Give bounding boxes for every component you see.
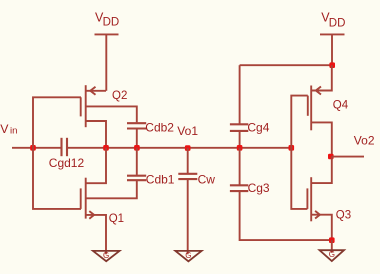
wire VDD1 to Q2 source [105, 34, 107, 90]
ground G3 [320, 250, 345, 261]
svg-text:Cdb2: Cdb2 [145, 121, 174, 135]
transistor Q4 (PMOS) [308, 65, 332, 156]
svg-text:Q1: Q1 [109, 213, 124, 225]
junction dot Vo2 [328, 154, 334, 160]
junction dot wire end gate of Q4/Q3 [289, 145, 295, 151]
wire VDD2 top horizontal [240, 64, 332, 66]
wire gate loop left [33, 97, 81, 209]
svg-text:G: G [329, 250, 335, 259]
svg-text:Q4: Q4 [333, 100, 349, 112]
node A junction dot Vin branch [30, 145, 36, 151]
svg-text:Cgd12: Cgd12 [49, 156, 85, 170]
wire gate vertical Q4/Q3 [291, 96, 308, 209]
node Vo2 label [354, 133, 375, 147]
label Cg4 [247, 120, 269, 134]
wire VDD2 to junction [331, 34, 333, 65]
label Cgd12 [49, 156, 85, 170]
svg-text:V: V [0, 122, 9, 136]
wire Vo2 stub [332, 156, 364, 158]
svg-text:DD: DD [329, 17, 346, 29]
junction dot Cg branch [237, 145, 243, 151]
svg-text:Cdb1: Cdb1 [146, 172, 175, 186]
capacitor Cg4 [230, 65, 248, 148]
capacitor Cw [178, 148, 197, 254]
power VDD1 label [95, 10, 119, 28]
power VDD2 bar [320, 33, 345, 35]
svg-text:G: G [103, 251, 109, 260]
label Q2 [112, 90, 127, 102]
label Q1 [109, 213, 124, 225]
capacitor Cdb1 [86, 148, 147, 199]
junction dot Vo1/Cw [185, 145, 191, 151]
svg-text:Cg3: Cg3 [248, 181, 270, 195]
label Q3 [336, 209, 351, 221]
svg-text:G: G [185, 251, 191, 260]
svg-text:in: in [10, 126, 17, 137]
label Cdb2 [145, 121, 174, 135]
node Vin label [0, 122, 17, 137]
capacitor Cdb2 [127, 123, 146, 148]
node Vo1 label [177, 124, 198, 138]
svg-text:Q3: Q3 [336, 209, 351, 221]
ground G2 [175, 251, 201, 262]
junction dot VDD2 branch [329, 62, 335, 68]
power VDD2 label [321, 11, 345, 30]
label Cw [198, 173, 216, 187]
ground G1 [93, 251, 120, 261]
power VDD1 bar [95, 33, 119, 35]
label Cdb1 [146, 172, 175, 186]
junction dot ground right [329, 237, 335, 243]
junction dot Cdb branch [134, 145, 140, 151]
wire Vin to Cgd12 [12, 147, 61, 149]
svg-text:DD: DD [103, 16, 120, 28]
label Cg3 [248, 181, 270, 195]
svg-text:Vo2: Vo2 [354, 133, 375, 147]
svg-text:Cw: Cw [198, 173, 216, 187]
capacitor Cgd12 [62, 138, 68, 156]
transistor Q1 (NMOS) [81, 148, 106, 254]
label Q4 [333, 100, 349, 112]
wire to ground G3 [331, 240, 333, 253]
transistor Q3 (NMOS) [307, 157, 331, 241]
svg-text:Cg4: Cg4 [247, 120, 269, 134]
wire Cgd12 to node Vo1 [68, 147, 291, 149]
transistor Q2 (PMOS) [81, 85, 137, 148]
svg-text:Q2: Q2 [112, 90, 127, 102]
capacitor Cg3 [230, 148, 332, 240]
junction dot Q2/Q1 drain at Vo1 wire [103, 145, 109, 151]
svg-text:Vo1: Vo1 [177, 124, 198, 138]
